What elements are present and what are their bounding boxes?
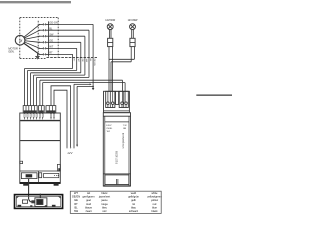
svg-text:8.307: 8.307	[106, 125, 112, 127]
svg-text:red: red	[153, 202, 157, 206]
svg-text:8 107-10/2 B: 8 107-10/2 B	[117, 151, 119, 164]
svg-text:7 W: 7 W	[123, 125, 127, 127]
svg-text:zwart: zwart	[85, 209, 91, 213]
svg-text:GEN.: GEN.	[8, 50, 15, 54]
svg-text:rot: rot	[132, 202, 135, 206]
svg-text:weiß: weiß	[131, 191, 137, 195]
svg-text:white: white	[152, 191, 159, 195]
svg-text:GE-GN: GE-GN	[49, 22, 57, 25]
svg-text:geel: geel	[86, 198, 91, 202]
svg-text:blauw: blauw	[85, 205, 92, 209]
svg-text:rouge: rouge	[101, 202, 108, 206]
svg-text:SW: SW	[49, 33, 54, 36]
svg-text:black: black	[152, 209, 159, 213]
svg-text:GE-GN: GE-GN	[93, 59, 95, 67]
svg-text:noir: noir	[102, 209, 106, 213]
svg-text:RT: RT	[74, 202, 78, 206]
svg-text:schwarz: schwarz	[129, 209, 139, 213]
svg-text:yellow: yellow	[151, 198, 158, 202]
svg-text:geel/groen: geel/groen	[82, 195, 95, 199]
svg-text:jaune: jaune	[100, 198, 108, 202]
svg-text:12V/30W: 12V/30W	[128, 19, 139, 22]
svg-text:GE: GE	[81, 59, 83, 63]
svg-text:M: M	[19, 39, 22, 43]
svg-text:yellow/green: yellow/green	[147, 195, 162, 199]
svg-text:12V/30W: 12V/30W	[105, 19, 116, 22]
svg-text:RT: RT	[49, 52, 53, 55]
svg-text:www.premex.nl: www.premex.nl	[122, 133, 125, 149]
svg-text:BN: BN	[123, 128, 126, 130]
svg-text:700SL: 700SL	[106, 128, 113, 130]
svg-text:GE: GE	[49, 40, 53, 43]
svg-text:rood: rood	[86, 202, 92, 206]
svg-text:SW: SW	[74, 209, 79, 213]
svg-text:blau: blau	[131, 205, 136, 209]
svg-text:gelb/grün: gelb/grün	[128, 195, 139, 199]
svg-text:bleu: bleu	[102, 205, 107, 209]
svg-text:WT: WT	[49, 46, 53, 49]
svg-text:GE: GE	[74, 198, 78, 202]
svg-text:jaune/vert: jaune/vert	[98, 195, 110, 199]
svg-text:wit: wit	[87, 191, 90, 195]
svg-text:gelb: gelb	[131, 198, 136, 202]
svg-text:blanc: blanc	[101, 191, 108, 195]
svg-text:blue: blue	[152, 205, 157, 209]
svg-text:GE/GN: GE/GN	[72, 195, 80, 199]
svg-text:WT: WT	[74, 191, 78, 195]
